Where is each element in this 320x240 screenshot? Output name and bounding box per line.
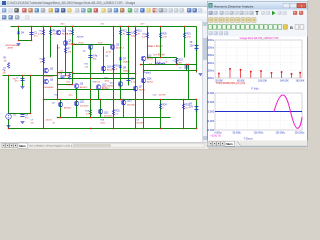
- svg-text:-40.07: -40.07: [106, 52, 113, 54]
- svg-text:Q6: Q6: [50, 80, 54, 82]
- wire col V9: [196, 100, 198, 129]
- svg-text:B: B: [290, 25, 293, 30]
- svg-text:22V: 22V: [190, 45, 195, 47]
- resistor Rk: [67, 74, 74, 87]
- wire col box r: [176, 58, 178, 65]
- diode D8: [119, 66, 131, 73]
- svg-text:Q7: Q7: [139, 87, 143, 89]
- capacitor C1b: [20, 115, 28, 120]
- transistor Q16: [141, 78, 154, 83]
- transistor Q5b: [63, 41, 78, 46]
- svg-text:v(Out) (V): v(Out) (V): [211, 135, 222, 138]
- wire q8b stub: [98, 90, 100, 100]
- svg-text:48.3: 48.3: [61, 24, 66, 26]
- svg-text:0.1: 0.1: [116, 114, 120, 116]
- svg-text:8.000m: 8.000m: [207, 46, 214, 50]
- resistor R25: [182, 104, 190, 110]
- svg-text:Q3: Q3: [116, 45, 120, 47]
- wire col C4: [128, 27, 130, 86]
- sine trace label: [211, 135, 222, 138]
- schematic editor area: [0, 21, 202, 142]
- sine x axis title: [244, 137, 253, 140]
- svg-text:D4: D4: [21, 33, 25, 35]
- wire col load R25: [183, 100, 185, 129]
- wire col q12: [100, 100, 102, 118]
- svg-text:140.00K: 140.00K: [280, 80, 289, 83]
- wire lower mid row: [58, 78, 136, 80]
- svg-text:Io = 90 mA: Io = 90 mA: [154, 54, 166, 57]
- resistor R23h: [175, 58, 183, 65]
- transistor Q10: [101, 66, 115, 71]
- svg-text:Main: Main: [226, 142, 233, 146]
- svg-text:44.94: 44.94: [102, 87, 108, 89]
- svg-text:Q16: Q16: [147, 79, 152, 81]
- wire col R21: [160, 27, 162, 58]
- svg-text:C9: C9: [31, 120, 34, 122]
- wire col R12: [120, 27, 122, 100]
- analysis toolbar row C: [208, 24, 308, 31]
- svg-text:Q12: Q12: [104, 113, 109, 115]
- toolbar row 2: [0, 14, 308, 22]
- harmonic formula label: [216, 81, 246, 85]
- wire col q3: [103, 47, 105, 74]
- svg-text:47u: 47u: [25, 118, 28, 120]
- svg-text:BD911: BD911: [108, 86, 115, 88]
- harmonic x axis labels: [215, 80, 305, 83]
- resistor R6: [49, 30, 56, 36]
- svg-text:D7: D7: [123, 59, 127, 61]
- sine x axis labels: [214, 132, 305, 134]
- vas annotations: [77, 37, 104, 45]
- svg-text:C8: C8: [137, 120, 140, 122]
- svg-text:220 K1: 220 K1: [46, 120, 53, 122]
- wire col load left: [143, 100, 145, 129]
- resistor R21: [159, 33, 167, 39]
- transistor Q15: [141, 56, 154, 61]
- svg-text:10.000: 10.000: [207, 100, 215, 104]
- svg-text:Probe1: Probe1: [144, 72, 152, 75]
- svg-text:1N4003: 1N4003: [123, 62, 131, 64]
- svg-text:R15: R15: [85, 64, 90, 66]
- wire col R5: [43, 27, 45, 129]
- svg-text:BUB08_1: BUB08_1: [69, 44, 78, 46]
- svg-text:4.7k: 4.7k: [38, 34, 43, 36]
- svg-text:50.000u: 50.000u: [233, 132, 242, 134]
- resistor R1: [4, 58, 10, 73]
- probe label Probe1: [144, 72, 152, 75]
- resistor R24: [159, 104, 167, 110]
- bias annotation: [148, 46, 166, 57]
- wire col input mid: [30, 76, 32, 114]
- schematic tab bar: [0, 142, 208, 150]
- wire driver row: [44, 99, 144, 101]
- resistor R23a: [183, 33, 191, 39]
- transistor Q12: [98, 109, 113, 117]
- svg-text:39: 39: [138, 34, 141, 36]
- svg-text:47.1: 47.1: [101, 24, 106, 26]
- svg-text:V2: V2: [13, 115, 17, 117]
- resistor R12: [119, 30, 127, 36]
- svg-text:0.33: 0.33: [163, 37, 168, 39]
- svg-text:R22: R22: [116, 111, 121, 113]
- ground gnd5: [21, 122, 25, 124]
- svg-text:Harmonic Distortion Analysis: Harmonic Distortion Analysis: [214, 4, 254, 8]
- wire cap C2 branch: [31, 27, 33, 41]
- source V2: [6, 114, 17, 129]
- svg-text:V8: V8: [190, 42, 194, 44]
- svg-text:Main: Main: [19, 144, 26, 148]
- transistor Q3: [110, 45, 125, 50]
- wire output row: [141, 64, 197, 66]
- svg-text:R20: R20: [163, 34, 168, 36]
- svg-text:F (Hz): F (Hz): [252, 87, 259, 90]
- wire col vas-l: [90, 46, 92, 100]
- resistor R4c: [39, 48, 60, 64]
- svg-text:4.7u: 4.7u: [131, 82, 135, 84]
- main window title bar: [0, 0, 308, 7]
- svg-text:1k8: 1k8: [57, 48, 61, 50]
- svg-text:Q11: Q11: [80, 102, 85, 104]
- resistor R13: [134, 30, 142, 36]
- analysis tab bar: [208, 141, 308, 147]
- svg-text:10.000m: 10.000m: [207, 38, 214, 42]
- svg-text:Vbias = 30 mV: Vbias = 30 mV: [148, 46, 163, 48]
- svg-text:4.7k: 4.7k: [67, 34, 72, 36]
- svg-text:C7: C7: [179, 68, 183, 70]
- wire col right rail: [196, 27, 198, 73]
- svg-text:0.1: 0.1: [86, 114, 90, 116]
- wire load top row: [144, 99, 197, 101]
- svg-text:4.000m: 4.000m: [207, 61, 214, 65]
- schematic vertical scrollbar: [202, 21, 209, 142]
- svg-text:8.2k: 8.2k: [97, 82, 101, 84]
- wire col load R24: [160, 100, 162, 129]
- svg-text:BD908/BC: BD908/BC: [45, 76, 55, 78]
- capacitor C2: [29, 33, 37, 38]
- transistor Q8c: [108, 82, 123, 88]
- svg-text:T (Secs): T (Secs): [244, 137, 253, 140]
- capacitor C4: [126, 33, 136, 38]
- wire output box top: [148, 57, 177, 59]
- svg-text:2.1k: 2.1k: [59, 73, 63, 75]
- wire bias row: [73, 73, 136, 75]
- svg-text:180.00K: 180.00K: [296, 80, 305, 83]
- sine chart plot box and grid: [215, 93, 302, 130]
- svg-text:R26: R26: [101, 120, 106, 122]
- svg-text:1.8k: 1.8k: [68, 52, 73, 54]
- wire zener branch: [18, 27, 20, 41]
- wire q8a stub: [76, 89, 78, 100]
- harmonic y axis labels: [204, 38, 214, 80]
- resistor R22b: [112, 110, 120, 116]
- svg-text:2SD1047: 2SD1047: [127, 105, 136, 107]
- svg-text:2.000m: 2.000m: [207, 68, 214, 72]
- wire output box bottom: [144, 70, 197, 72]
- svg-text:R1: R1: [4, 58, 8, 60]
- wire col R23t: [184, 27, 186, 58]
- svg-text:THD(HARM(V(RL)),F) (%): THD(HARM(V(RL)),F) (%): [216, 81, 246, 85]
- zener diode D4: [6, 32, 25, 50]
- svg-text:Q8: Q8: [80, 84, 84, 86]
- svg-text:47k: 47k: [4, 61, 7, 63]
- wire col q9: [60, 100, 62, 118]
- svg-text:1k: 1k: [40, 62, 42, 64]
- svg-text:4.4u: 4.4u: [69, 95, 73, 97]
- svg-text:40: 40: [53, 123, 56, 125]
- svg-text:Q2: Q2: [50, 69, 54, 71]
- wire col drv: [143, 61, 145, 100]
- wire col q11: [76, 100, 78, 118]
- capacitor Ck: [60, 71, 65, 79]
- svg-text:Text 1 ╱Models 1 ╱Power Suppli: Text 1 ╱Models 1 ╱Power Supplies 1 ╱Info…: [29, 145, 73, 148]
- resistor R19: [85, 110, 91, 116]
- ground gnd4: [199, 74, 203, 76]
- wire q8c stub: [120, 87, 122, 100]
- wire input src: [8, 76, 10, 114]
- battery V9: [189, 104, 199, 112]
- svg-text:1k: 1k: [116, 69, 119, 71]
- svg-text:2SC5200: 2SC5200: [80, 106, 89, 108]
- svg-text:C4a: C4a: [93, 56, 98, 58]
- svg-text:BD241C: BD241C: [64, 108, 72, 110]
- wire col q13: [123, 100, 125, 118]
- svg-text:BD241C: BD241C: [80, 87, 88, 89]
- resistor R20: [142, 33, 149, 39]
- svg-text:100.00K: 100.00K: [258, 80, 267, 83]
- resistor R16b: [112, 65, 120, 71]
- wire fb box top: [58, 72, 73, 74]
- svg-text:46.9: 46.9: [141, 24, 146, 26]
- wire input bottom row: [9, 113, 31, 115]
- svg-text:22k: 22k: [3, 73, 6, 75]
- wire bottom supply rail: [9, 128, 197, 130]
- svg-text:8: 8: [163, 108, 165, 110]
- node voltage labels: [3, 24, 181, 125]
- svg-text:Q9: Q9: [52, 103, 56, 105]
- svg-text:C9: C9: [25, 115, 29, 117]
- svg-text:2u: 2u: [166, 62, 168, 64]
- ground gnd1: [17, 44, 21, 46]
- svg-text:C1: C1: [16, 78, 19, 80]
- svg-text:V9: V9: [189, 104, 193, 106]
- harmonic chart plot box and grid: [215, 40, 302, 78]
- transistor Q13: [121, 100, 136, 106]
- svg-text:1.5k: 1.5k: [85, 67, 89, 69]
- svg-text:-10.000: -10.000: [207, 119, 215, 123]
- wire col r19: [90, 100, 92, 118]
- harmonic x axis title: [252, 87, 259, 90]
- wire col C7: [186, 65, 188, 71]
- svg-text:R16: R16: [116, 66, 121, 68]
- capacitor C7: [179, 66, 189, 70]
- analysis title bar: [208, 2, 308, 10]
- capacitor C10 label: [153, 95, 166, 97]
- svg-text:C10: C10: [153, 95, 158, 97]
- wire col box l: [155, 58, 157, 65]
- wire col R20: [147, 27, 149, 58]
- svg-text:T: T: [256, 11, 259, 17]
- resistor R8: [67, 30, 74, 36]
- svg-text:33p: 33p: [93, 59, 97, 61]
- transistor Q2a: [83, 45, 93, 53]
- sine y axis labels: [205, 91, 214, 132]
- wire col center: [113, 27, 115, 129]
- transistor Q11: [74, 101, 89, 107]
- svg-text:R24: R24: [163, 105, 168, 107]
- wire col R7: [65, 27, 67, 76]
- ground gnd2: [21, 87, 25, 89]
- harmonic chart title: [240, 37, 279, 40]
- svg-text:0.33: 0.33: [142, 37, 147, 39]
- svg-text:200.000u: 200.000u: [295, 132, 305, 134]
- svg-text:Q13: Q13: [127, 101, 132, 103]
- transistor Q1: [56, 30, 71, 35]
- wire feedback row: [58, 117, 171, 119]
- svg-text:0.000: 0.000: [208, 110, 215, 114]
- svg-text:100.000u: 100.000u: [254, 132, 264, 134]
- svg-text:Q4: Q4: [106, 56, 110, 58]
- wire output drop: [188, 65, 190, 100]
- capacitor C1: [15, 78, 25, 83]
- analysis toolbar row A: [208, 10, 308, 18]
- wire top supply rail: [11, 26, 197, 28]
- svg-text:29.49: 29.49: [98, 43, 104, 45]
- diode D7: [119, 58, 131, 64]
- transistor Q8a: [74, 84, 88, 90]
- transistor Q9: [52, 102, 72, 109]
- capacitor C5: [126, 79, 135, 84]
- svg-text:-20.000: -20.000: [207, 128, 215, 132]
- analysis window frame: [207, 1, 308, 147]
- wire vas base row: [73, 44, 112, 46]
- svg-text:68n/4R7: 68n/4R7: [137, 123, 145, 125]
- analysis toolbar row D: [208, 31, 308, 37]
- svg-text:BD911: BD911: [139, 90, 146, 92]
- wire fb box bot: [58, 84, 73, 86]
- svg-text:BD139_1: BD139_1: [116, 48, 125, 50]
- sine zero line: [215, 111, 302, 113]
- capacitor C4a: [88, 56, 98, 61]
- svg-text:6.000m: 6.000m: [207, 53, 214, 57]
- svg-text:Q2: Q2: [83, 51, 87, 53]
- svg-text:×: ×: [301, 4, 303, 8]
- svg-text:29.49: 29.49: [79, 43, 85, 45]
- svg-text:BD911: BD911: [147, 82, 154, 84]
- inductor L1: [156, 62, 168, 65]
- analysis toolbar row B: [208, 17, 308, 24]
- wire cap C1 branch: [22, 76, 24, 87]
- svg-text:BD912: BD912: [147, 59, 154, 61]
- wire input row: [3, 75, 58, 77]
- svg-text:R13: R13: [138, 31, 143, 33]
- svg-text:20.000: 20.000: [207, 91, 215, 95]
- wire col R6: [50, 27, 52, 58]
- svg-text:22n/1W: 22n/1W: [159, 95, 166, 97]
- svg-text:6.8G: 6.8G: [101, 123, 106, 125]
- ground gnd3: [7, 126, 11, 128]
- svg-text:R6: R6: [53, 31, 57, 33]
- svg-text:22V: 22V: [189, 107, 194, 109]
- svg-text:39: 39: [123, 34, 126, 36]
- wire col C3: [72, 27, 74, 85]
- svg-text:150.000u: 150.000u: [276, 132, 286, 134]
- svg-text:A47/B: A47/B: [8, 47, 14, 50]
- svg-text:47u: 47u: [31, 123, 34, 125]
- svg-text:8.2k: 8.2k: [67, 82, 71, 84]
- svg-text:2SC5200: 2SC5200: [104, 116, 113, 118]
- resistor R7: [64, 48, 72, 54]
- svg-text:2N5089: 2N5089: [77, 37, 85, 39]
- battery V8: [190, 42, 199, 50]
- svg-text:BD908/BC: BD908/BC: [45, 87, 55, 89]
- svg-text:R21: R21: [187, 34, 192, 36]
- svg-text:1N4003: 1N4003: [123, 71, 131, 73]
- svg-text:R18: R18: [55, 95, 60, 97]
- transistor Q8b: [96, 85, 110, 91]
- sine waveform: [274, 95, 302, 128]
- svg-text:0.000m: 0.000m: [207, 76, 214, 80]
- svg-text:Q10: Q10: [107, 67, 112, 69]
- harmonic stems: [218, 68, 301, 78]
- svg-text:47u: 47u: [15, 81, 19, 83]
- wire col ltp: [57, 45, 59, 100]
- svg-text:R7: R7: [68, 49, 72, 51]
- resistor R5: [38, 30, 45, 36]
- svg-text:Q5: Q5: [69, 41, 73, 43]
- svg-text:47u: 47u: [34, 36, 37, 38]
- transistor Q2: [44, 68, 55, 78]
- svg-text:0.33: 0.33: [187, 37, 192, 39]
- transistor Q7: [133, 86, 146, 91]
- transistor Q6: [44, 79, 55, 89]
- svg-text:220: 220: [53, 34, 57, 36]
- wire mid row: [58, 89, 136, 91]
- wire zener-cap join: [19, 40, 32, 42]
- toolbar row 1: [0, 7, 308, 15]
- wire col R13: [135, 27, 137, 129]
- svg-text:D8: D8: [123, 68, 127, 70]
